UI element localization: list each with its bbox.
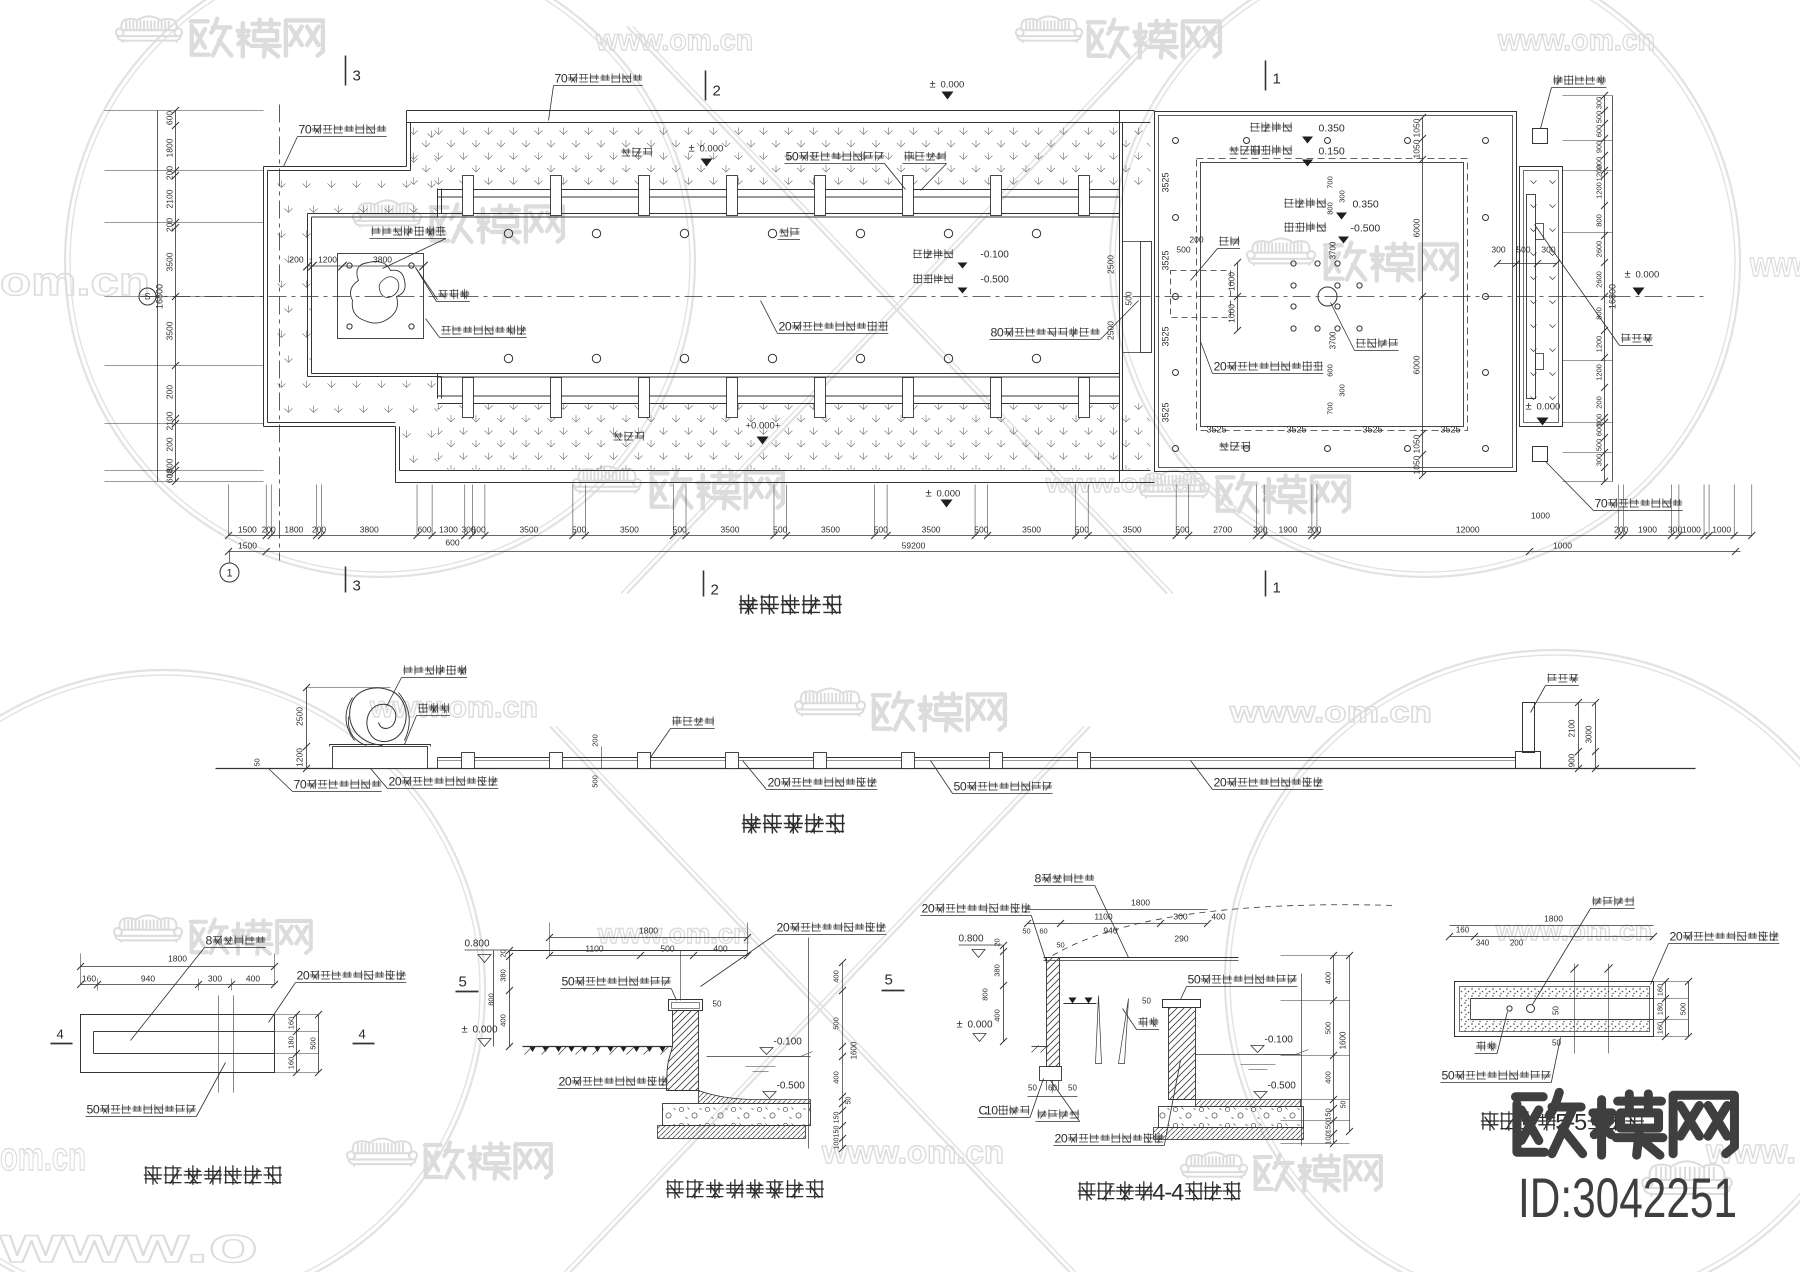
elevation left dim xyxy=(306,688,308,769)
svg-text:4: 4 xyxy=(1152,1179,1165,1205)
watermark bottom-left logo xyxy=(114,915,182,942)
label bubbler xyxy=(779,227,799,236)
svg-text:500: 500 xyxy=(1124,291,1134,305)
svg-text:1050: 1050 xyxy=(1412,118,1422,137)
svg-text:0.000: 0.000 xyxy=(1636,270,1660,281)
water weir channel xyxy=(1141,242,1152,353)
svg-text:0: 0 xyxy=(300,778,307,792)
svg-text:3525: 3525 xyxy=(1362,425,1382,435)
d2 top dims xyxy=(550,937,748,939)
label 50thick cap top xyxy=(799,151,884,160)
d2 wall body hatched xyxy=(667,1011,699,1091)
svg-text:1600: 1600 xyxy=(1339,1031,1348,1049)
svg-text:500: 500 xyxy=(1595,111,1604,124)
monument hatch marks xyxy=(1531,181,1556,400)
big site logo xyxy=(1515,1092,1734,1155)
svg-text:1800: 1800 xyxy=(284,525,303,535)
svg-text:1000: 1000 xyxy=(1227,272,1237,291)
label 20thick pool bottom long xyxy=(792,321,888,331)
svg-text:8: 8 xyxy=(206,934,213,948)
right total dim 16800 xyxy=(1612,96,1614,482)
granite lamp bottom xyxy=(1533,447,1548,462)
svg-text:300: 300 xyxy=(1595,97,1604,110)
monument slab elevation xyxy=(1523,703,1535,753)
label inscription stone xyxy=(1621,333,1652,342)
bottom dim chain row2 xyxy=(229,551,1741,553)
svg-text:5: 5 xyxy=(1574,1109,1587,1135)
svg-text:50: 50 xyxy=(1552,1006,1561,1015)
svg-text:0: 0 xyxy=(568,975,575,989)
svg-text:-0.100: -0.100 xyxy=(981,250,1010,261)
svg-text:2100: 2100 xyxy=(165,411,175,430)
watermark top-left logo xyxy=(116,16,182,42)
section marker 3 top xyxy=(345,56,347,86)
svg-text:0: 0 xyxy=(997,326,1004,340)
elevation right dims xyxy=(1578,703,1580,769)
svg-text:1000: 1000 xyxy=(1712,525,1731,535)
svg-text:400: 400 xyxy=(993,1009,1002,1022)
d2 wall cap xyxy=(669,1000,703,1011)
svg-text:200: 200 xyxy=(165,385,175,399)
svg-text:1: 1 xyxy=(1273,580,1281,597)
svg-text:www.om.cn: www.om.cn xyxy=(821,1134,1004,1170)
svg-text:200: 200 xyxy=(262,525,276,535)
svg-text:400: 400 xyxy=(499,1014,508,1027)
svg-text:800: 800 xyxy=(1326,202,1335,215)
svg-text:340: 340 xyxy=(1476,939,1490,948)
right dim chain xyxy=(1604,96,1606,482)
svg-text:-0.100: -0.100 xyxy=(1265,1035,1294,1046)
svg-text:www.: www. xyxy=(1749,246,1800,284)
svg-text:1000: 1000 xyxy=(1553,541,1572,551)
sculpture platform xyxy=(338,254,424,339)
d1 label glass cover xyxy=(213,935,266,944)
svg-text:3500: 3500 xyxy=(519,525,538,535)
label 80thick weir xyxy=(1004,327,1100,337)
svg-text:180: 180 xyxy=(287,1036,296,1049)
square pool perimeter nozzles xyxy=(1173,138,1179,144)
svg-text:0.000: 0.000 xyxy=(941,80,965,91)
svg-text:0: 0 xyxy=(960,780,967,794)
pump pit dim 1000/1000 xyxy=(1237,263,1239,331)
svg-text:0.000: 0.000 xyxy=(1537,402,1561,413)
ground baseline xyxy=(216,768,1696,770)
left extension lines xyxy=(105,110,264,112)
svg-text:100: 100 xyxy=(1324,1132,1333,1145)
svg-text:+0.000+: +0.000+ xyxy=(746,421,781,432)
d4 labels xyxy=(1592,896,1634,905)
svg-text:www.om.cn: www.om.cn xyxy=(1497,24,1655,57)
svg-text:3500: 3500 xyxy=(821,525,840,535)
svg-text:0.800: 0.800 xyxy=(465,939,490,950)
svg-text:500: 500 xyxy=(572,525,586,535)
svg-text:600: 600 xyxy=(165,111,175,125)
svg-text:300: 300 xyxy=(1491,245,1505,255)
svg-text:1200: 1200 xyxy=(1595,165,1604,182)
label floodlight xyxy=(438,289,469,299)
svg-text:200: 200 xyxy=(165,437,175,451)
svg-text:3700: 3700 xyxy=(1329,241,1338,259)
svg-text:1800: 1800 xyxy=(168,954,187,964)
svg-text:1300: 1300 xyxy=(439,525,458,535)
label pump pit xyxy=(1219,236,1239,245)
svg-text:0: 0 xyxy=(565,1075,572,1089)
svg-text:50: 50 xyxy=(253,758,262,766)
svg-text:±: ± xyxy=(1526,401,1532,413)
title elevation view xyxy=(742,813,845,833)
d2 pool floor slabs xyxy=(699,1091,811,1104)
svg-text:om.cn: om.cn xyxy=(0,260,150,304)
svg-text:3800: 3800 xyxy=(360,525,379,535)
svg-text:±: ± xyxy=(1625,269,1631,281)
d4 right dims xyxy=(1665,982,1667,1037)
svg-text:3525: 3525 xyxy=(1286,425,1306,435)
section marker 2 top xyxy=(705,71,707,101)
square pool inner wall xyxy=(1201,163,1464,427)
central water column fountain xyxy=(1318,287,1337,306)
svg-text:300: 300 xyxy=(1173,912,1187,922)
svg-text:500: 500 xyxy=(591,775,600,788)
d2 wall top line xyxy=(510,950,748,952)
left block outer wall xyxy=(263,167,265,427)
svg-text:±: ± xyxy=(462,1024,468,1036)
d3 title xyxy=(1078,1181,1241,1200)
label 70thick bottom-right xyxy=(1608,498,1682,507)
elevation finish labels xyxy=(307,779,381,788)
horizontal centerline xyxy=(141,296,1706,298)
left block bottom edge xyxy=(264,426,396,428)
svg-text:4: 4 xyxy=(57,1027,64,1042)
d3 water xyxy=(1196,1054,1301,1056)
left dim chain xyxy=(175,111,177,482)
svg-text:1000: 1000 xyxy=(1682,525,1701,535)
svg-text:5: 5 xyxy=(459,974,467,991)
label monument elevation xyxy=(1547,673,1578,682)
sculpture bay wall xyxy=(307,214,309,377)
svg-text:3525: 3525 xyxy=(1161,402,1171,422)
svg-text:940: 940 xyxy=(141,974,155,984)
detail spout-wall side group xyxy=(456,921,887,1199)
svg-text:500: 500 xyxy=(773,525,787,535)
platform spot lights xyxy=(347,263,352,268)
svg-text:1500: 1500 xyxy=(238,541,257,551)
pump pit dashed xyxy=(1171,271,1231,318)
title plan view xyxy=(739,594,842,614)
svg-text:1200: 1200 xyxy=(295,748,305,767)
svg-text:200: 200 xyxy=(1189,235,1203,245)
svg-text:±: ± xyxy=(930,79,936,91)
label sculpture elevation xyxy=(403,665,467,675)
d1 label 50 cap xyxy=(100,1104,196,1113)
d2 right vdims xyxy=(808,938,810,1149)
d2 labels xyxy=(790,922,886,932)
svg-text:400: 400 xyxy=(246,974,260,984)
svg-text:600: 600 xyxy=(417,525,431,535)
svg-text:3500: 3500 xyxy=(165,252,175,271)
svg-text:0: 0 xyxy=(305,123,312,137)
svg-text:0.800: 0.800 xyxy=(959,934,984,945)
svg-text:300: 300 xyxy=(1338,384,1347,397)
svg-text:1600: 1600 xyxy=(850,1041,859,1059)
svg-text:800: 800 xyxy=(487,993,496,1006)
d3 thin wall hatched xyxy=(1047,958,1060,1067)
svg-text:300: 300 xyxy=(208,974,222,984)
pool outer wall bottom xyxy=(396,482,1155,484)
svg-text:www.om.cn: www.om.cn xyxy=(1229,696,1432,729)
svg-text:3500: 3500 xyxy=(620,525,639,535)
svg-text:1900: 1900 xyxy=(1638,525,1657,535)
svg-text:200: 200 xyxy=(289,255,303,265)
svg-text:0.150: 0.150 xyxy=(1319,146,1345,158)
svg-text:200: 200 xyxy=(312,525,326,535)
svg-text:2600: 2600 xyxy=(1595,271,1604,288)
svg-text:2: 2 xyxy=(711,582,719,599)
svg-text:2500: 2500 xyxy=(295,707,305,726)
label water levels long pool xyxy=(913,249,953,259)
svg-text:0.000: 0.000 xyxy=(473,1025,498,1036)
axis bubble 1 xyxy=(220,563,239,582)
monument stone slab xyxy=(1527,195,1536,399)
d3 nozzle box xyxy=(1040,1067,1062,1081)
section marker 1 top xyxy=(1265,61,1267,91)
svg-text:2600: 2600 xyxy=(1595,241,1604,258)
svg-text:400: 400 xyxy=(1211,912,1225,922)
d3 glass plate xyxy=(1044,957,1239,959)
svg-text:0: 0 xyxy=(783,921,790,935)
svg-text:500: 500 xyxy=(1516,245,1530,255)
bottom dim extension lines xyxy=(228,485,230,536)
svg-text:300: 300 xyxy=(1253,525,1267,535)
svg-text:1200: 1200 xyxy=(1595,336,1604,353)
svg-text:200: 200 xyxy=(1595,396,1604,409)
svg-text:1100: 1100 xyxy=(1094,912,1113,922)
svg-text:3500: 3500 xyxy=(1123,525,1142,535)
svg-text:0: 0 xyxy=(1448,1069,1455,1083)
inscription monument base xyxy=(1520,167,1563,427)
svg-text:0: 0 xyxy=(1220,776,1227,790)
svg-text:300: 300 xyxy=(1338,190,1347,203)
svg-text:1200: 1200 xyxy=(1595,182,1604,199)
svg-text:ID:3042251: ID:3042251 xyxy=(1518,1166,1737,1229)
section marker 2 bottom xyxy=(703,571,705,597)
label water level mid xyxy=(1284,198,1326,208)
svg-text:300: 300 xyxy=(1668,525,1682,535)
d3 right dim chain xyxy=(1301,974,1303,1146)
svg-text:500: 500 xyxy=(874,525,888,535)
svg-text:0: 0 xyxy=(1601,497,1608,511)
granite lamp top xyxy=(1533,129,1548,144)
svg-text:1800: 1800 xyxy=(639,926,658,936)
svg-text:800: 800 xyxy=(1595,214,1604,227)
d3 left vdims xyxy=(1003,946,1005,1042)
svg-text:20: 20 xyxy=(993,938,1002,946)
svg-text:500: 500 xyxy=(1176,245,1190,255)
svg-text:0.000: 0.000 xyxy=(700,144,724,155)
svg-text:0: 0 xyxy=(93,1103,100,1117)
svg-text:1: 1 xyxy=(226,568,232,580)
svg-text:www.o: www.o xyxy=(0,1217,258,1272)
d1 label 20 burned slab xyxy=(310,970,406,980)
svg-text:500: 500 xyxy=(673,525,687,535)
svg-text:100: 100 xyxy=(834,1138,841,1150)
svg-text:1050: 1050 xyxy=(1412,139,1422,158)
elevation view group xyxy=(216,665,1696,834)
labels planting trough xyxy=(621,147,652,156)
svg-text:±: ± xyxy=(957,1019,963,1031)
svg-text:800: 800 xyxy=(981,988,990,1001)
svg-text:3500: 3500 xyxy=(1022,525,1041,535)
svg-text:3700: 3700 xyxy=(1329,331,1338,349)
d4 top dims xyxy=(1450,936,1654,938)
svg-text:500: 500 xyxy=(832,1017,841,1030)
svg-text:160: 160 xyxy=(287,1017,296,1030)
svg-text:0: 0 xyxy=(785,320,792,334)
svg-text:2: 2 xyxy=(713,83,721,100)
square pool outer wall xyxy=(1155,112,1517,472)
spout wall piers bottom row xyxy=(463,378,474,418)
long pool right end wall xyxy=(1119,111,1121,483)
svg-text:600: 600 xyxy=(1595,125,1604,138)
svg-text:0.350: 0.350 xyxy=(1319,123,1345,135)
svg-text:160: 160 xyxy=(1656,1022,1665,1035)
svg-text:20: 20 xyxy=(499,949,508,957)
vertical centerline left xyxy=(279,105,281,561)
detail section 5-5 group xyxy=(1441,896,1780,1134)
svg-text:0: 0 xyxy=(792,150,799,164)
d4 nozzle circles xyxy=(1507,1006,1512,1011)
sculpture flower blob xyxy=(351,262,406,324)
svg-text:3: 3 xyxy=(353,578,361,595)
platform dim 200/1200/3800 xyxy=(308,265,424,267)
label platform surface xyxy=(441,325,526,335)
svg-text:6000: 6000 xyxy=(1412,355,1422,374)
d4 centerlines xyxy=(1574,964,1576,1054)
svg-text:200: 200 xyxy=(1307,525,1321,535)
svg-text:160: 160 xyxy=(1656,984,1665,997)
svg-text:50: 50 xyxy=(846,1097,853,1105)
d2 title xyxy=(666,1179,824,1198)
square pool inner vdim xyxy=(1422,118,1424,476)
label water level top xyxy=(1250,122,1292,132)
svg-text:300: 300 xyxy=(1595,454,1604,467)
d3 wall ground marks xyxy=(1064,1003,1097,1005)
svg-text:50: 50 xyxy=(1068,1084,1077,1093)
spout wall line top xyxy=(438,189,1120,191)
svg-text:0.350: 0.350 xyxy=(1353,199,1379,211)
svg-text:0.000: 0.000 xyxy=(937,489,961,500)
svg-text:200: 200 xyxy=(1614,525,1628,535)
label 70thick polished slab top xyxy=(568,73,642,82)
svg-text:3525: 3525 xyxy=(1161,250,1171,270)
svg-text:300: 300 xyxy=(1541,245,1555,255)
svg-text:700: 700 xyxy=(1326,176,1335,189)
left total dim 16800 xyxy=(157,111,159,482)
svg-text:www.om.cn: www.om.cn xyxy=(369,691,538,724)
d3 jet trajectory dashed xyxy=(1053,905,1396,956)
svg-text:50: 50 xyxy=(1142,997,1151,1006)
svg-text:12000: 12000 xyxy=(1456,525,1480,535)
section marker 1 bottom xyxy=(1265,571,1267,597)
svg-text:500: 500 xyxy=(1075,525,1089,535)
svg-text:0.000: 0.000 xyxy=(968,1020,993,1031)
svg-text:0: 0 xyxy=(774,776,781,790)
svg-text:160: 160 xyxy=(287,1057,296,1070)
svg-text:-0.500: -0.500 xyxy=(981,275,1010,286)
svg-text:0: 0 xyxy=(991,1104,998,1118)
svg-text:50: 50 xyxy=(1341,1101,1348,1109)
svg-text:500: 500 xyxy=(1595,439,1604,452)
svg-text:400: 400 xyxy=(832,970,841,983)
label water column fountain xyxy=(1356,338,1398,347)
svg-text:500: 500 xyxy=(1175,525,1189,535)
svg-text:600: 600 xyxy=(165,469,175,483)
svg-text:600: 600 xyxy=(1595,424,1604,437)
svg-text:om.cn: om.cn xyxy=(0,1135,86,1179)
label granite lamp xyxy=(1553,75,1606,85)
label sculpture name xyxy=(371,226,445,236)
d3 top dims xyxy=(1028,923,1208,925)
svg-text:2500: 2500 xyxy=(1106,255,1116,274)
bottom dim chain row1 xyxy=(229,535,1752,537)
svg-text:3525: 3525 xyxy=(1440,425,1460,435)
svg-text:60: 60 xyxy=(1039,927,1047,936)
svg-text:6000: 6000 xyxy=(1412,218,1422,237)
svg-text:0: 0 xyxy=(1220,360,1227,374)
svg-text:600: 600 xyxy=(1326,364,1335,377)
svg-text:150: 150 xyxy=(834,1126,841,1138)
svg-text:500: 500 xyxy=(472,525,486,535)
svg-text:0: 0 xyxy=(303,969,310,983)
spout wall piers top row xyxy=(463,176,474,216)
d3 floor slabs xyxy=(1196,1100,1301,1107)
svg-text:-0.500: -0.500 xyxy=(1268,1081,1297,1092)
svg-text:290: 290 xyxy=(1174,934,1188,944)
svg-text:4: 4 xyxy=(1171,1179,1184,1205)
svg-text:3500: 3500 xyxy=(721,525,740,535)
svg-text:200: 200 xyxy=(165,166,175,180)
svg-text:3500: 3500 xyxy=(922,525,941,535)
d4 title partly hidden xyxy=(1481,1111,1644,1130)
svg-text:150: 150 xyxy=(1324,1121,1333,1134)
svg-text:400: 400 xyxy=(832,1071,841,1084)
d3 spotlight beams xyxy=(1096,996,1102,1064)
svg-text:0: 0 xyxy=(1061,1132,1068,1146)
svg-text:3500: 3500 xyxy=(165,321,175,340)
svg-text:1050: 1050 xyxy=(1412,434,1422,453)
svg-text:500: 500 xyxy=(660,944,674,954)
svg-text:2100: 2100 xyxy=(165,189,175,208)
svg-text:0: 0 xyxy=(1676,930,1683,944)
d2 left vdims xyxy=(509,951,511,1047)
svg-text:1200: 1200 xyxy=(1595,364,1604,381)
planting hatch top band xyxy=(411,123,1151,190)
svg-text:www.om.cn: www.om.cn xyxy=(595,24,753,57)
svg-text:1900: 1900 xyxy=(1279,525,1298,535)
svg-text:4: 4 xyxy=(359,1027,366,1042)
svg-text:2100: 2100 xyxy=(1568,719,1577,737)
svg-text:380: 380 xyxy=(993,964,1002,977)
watermark mid instances xyxy=(573,466,641,493)
svg-text:50: 50 xyxy=(1028,1084,1037,1093)
d1 dim 1800 row xyxy=(81,966,275,968)
d3 right pool wall xyxy=(1163,1000,1201,1008)
svg-text:700: 700 xyxy=(1326,402,1335,415)
svg-text:500: 500 xyxy=(974,525,988,535)
bubbler fountain circles xyxy=(504,229,512,237)
svg-text:400: 400 xyxy=(1324,1071,1333,1084)
svg-text:1000: 1000 xyxy=(1227,304,1237,323)
svg-text:400: 400 xyxy=(713,944,727,954)
